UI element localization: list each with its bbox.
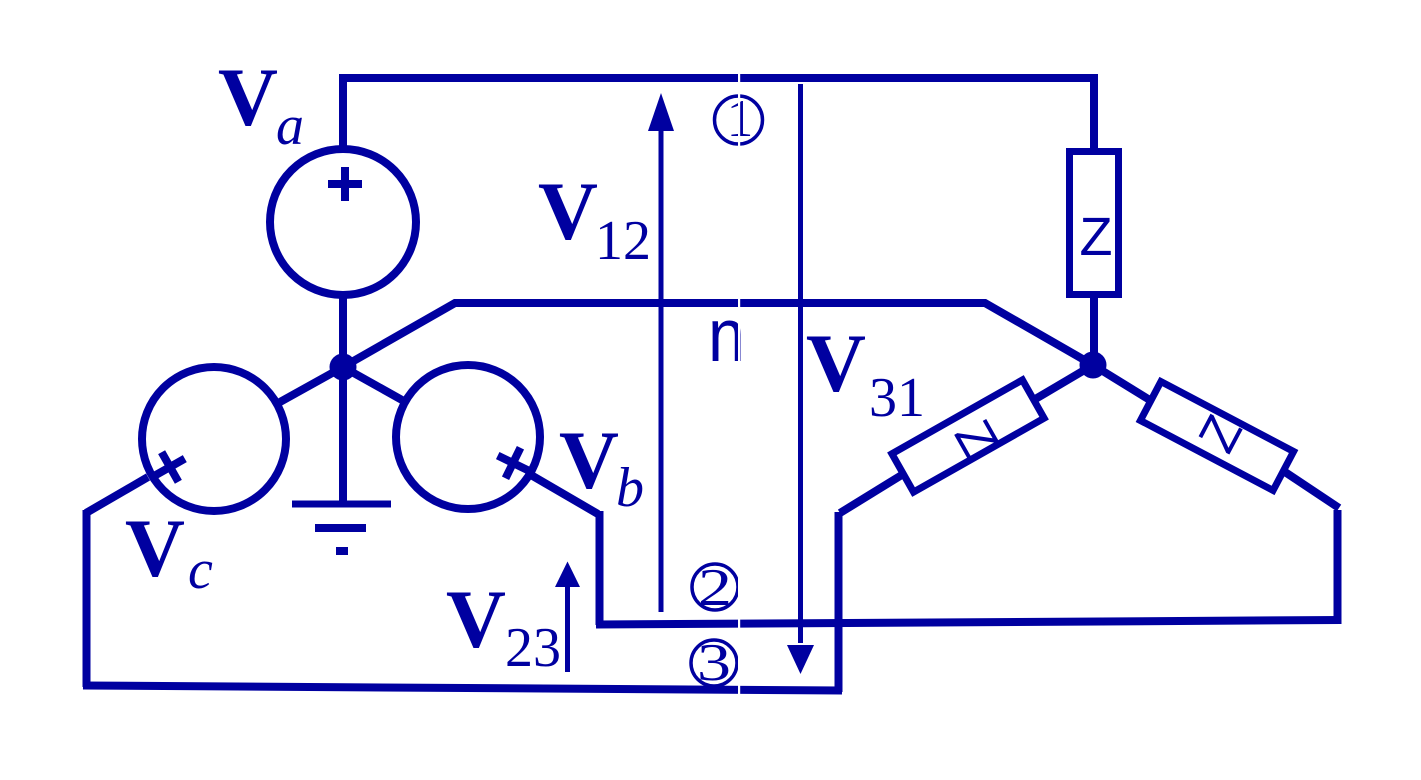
plus polarity on Vc lead (rotated) xyxy=(147,444,193,490)
wire: load node to right impedance xyxy=(1093,365,1153,402)
svg-text:12: 12 xyxy=(595,210,651,272)
node: load star point xyxy=(1080,352,1107,379)
wire: load node to left impedance xyxy=(1032,365,1093,401)
svg-text:V: V xyxy=(806,317,866,409)
svg-text:a: a xyxy=(276,95,304,157)
wire: left vertical of phase c xyxy=(83,510,91,687)
svg-text:c: c xyxy=(188,539,213,601)
wire: bottom line of phase c xyxy=(83,686,842,691)
white seam artifact xyxy=(738,0,740,710)
wire: Vb to corner xyxy=(531,475,598,514)
arrow V23 (points up) xyxy=(565,585,570,672)
wire: Vc to bottom-left corner xyxy=(86,477,148,513)
ground bar 1 xyxy=(292,501,391,508)
svg-text:V: V xyxy=(125,502,185,594)
wire: node to Vc circle xyxy=(280,367,343,402)
arrow V31 (points down) xyxy=(798,84,803,643)
svg-text:Z: Z xyxy=(1080,207,1113,267)
svg-text:b: b xyxy=(616,457,644,519)
wire: Va bottom to source neutral node xyxy=(339,294,347,367)
node: source star point xyxy=(330,354,357,381)
ground bar 2 xyxy=(315,524,366,532)
wire: vertical of phase b xyxy=(596,511,604,625)
svg-text:V: V xyxy=(446,573,506,665)
wire: diagonal from right load impedance xyxy=(1282,470,1339,508)
svg-text:V: V xyxy=(538,165,598,257)
node label 2 (circled) xyxy=(692,564,738,610)
impedance Z right diagonal (phase 2 load) xyxy=(1140,382,1293,491)
plus polarity on Vb lead (rotated) xyxy=(490,440,535,485)
node label 1 (circled) xyxy=(715,96,763,144)
svg-text:V: V xyxy=(559,414,619,506)
svg-text:3: 3 xyxy=(697,634,731,692)
wire: right vertical up to right load branch xyxy=(1334,510,1342,624)
ground bar 3 xyxy=(336,547,348,555)
ground wire from node xyxy=(339,367,347,502)
arrow V12 (points up) xyxy=(659,127,664,612)
svg-text:V: V xyxy=(218,51,278,143)
source Vc circle xyxy=(142,367,286,511)
plus polarity inside Va xyxy=(328,167,362,201)
wire: vertical up to left load branch xyxy=(835,512,843,692)
source Vb circle xyxy=(396,365,540,509)
wire: neutral line n between star points xyxy=(343,303,1093,367)
svg-text:2: 2 xyxy=(698,559,732,617)
wire: diagonal to left load impedance xyxy=(840,473,905,513)
wire: node to Vb circle xyxy=(343,367,402,400)
svg-text:23: 23 xyxy=(505,617,561,679)
impedance Z vertical (phase 1 load) xyxy=(1070,152,1119,295)
source Va circle xyxy=(270,149,416,295)
wire: Z bottom to load star node xyxy=(1090,294,1098,365)
svg-text:31: 31 xyxy=(869,367,925,429)
impedance Z left diagonal (phase 3 load) xyxy=(892,380,1044,492)
node label 3 (circled) xyxy=(691,640,737,686)
wire: long horizontal of phase b to right branch xyxy=(596,620,1341,625)
wire: top line from Va top to load phase-1 xyxy=(343,78,1094,150)
